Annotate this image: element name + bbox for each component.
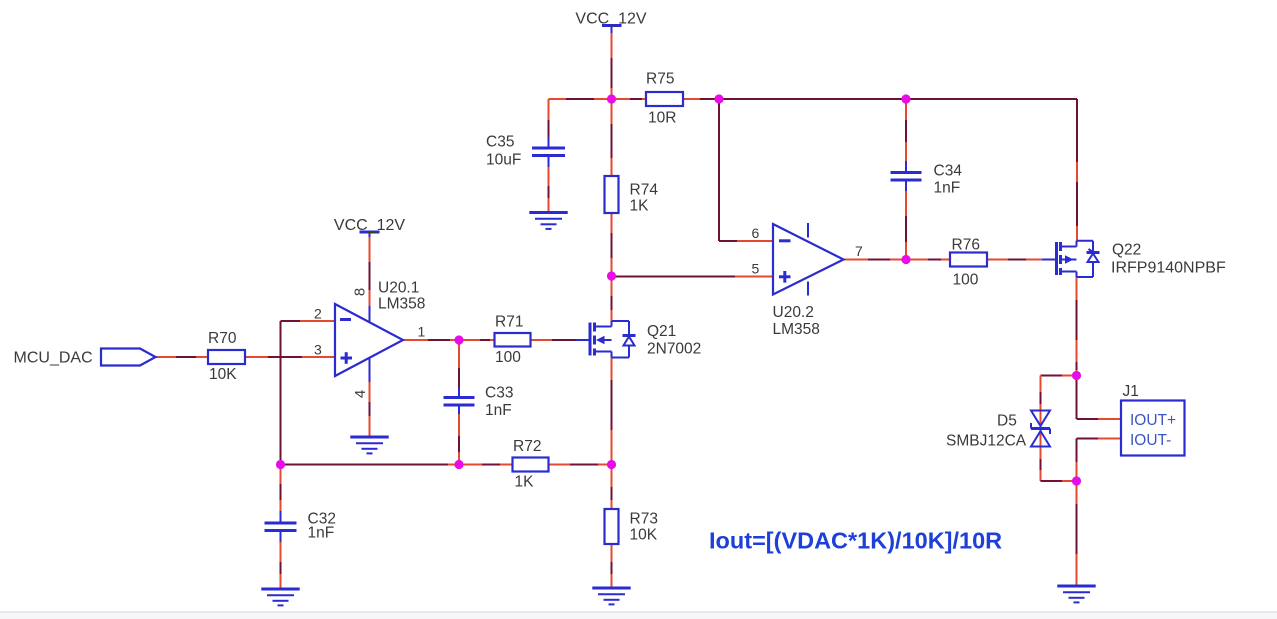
svg-text:2: 2 <box>314 306 322 322</box>
svg-text:IOUT-: IOUT- <box>1130 432 1171 449</box>
svg-text:4: 4 <box>352 390 369 398</box>
svg-text:VCC_12V: VCC_12V <box>334 217 405 234</box>
svg-text:IOUT+: IOUT+ <box>1130 412 1176 429</box>
wire C34 branch <box>905 99 907 260</box>
svg-text:R71: R71 <box>495 314 523 331</box>
wire branch up to U20.1 pin2 <box>281 321 336 465</box>
wire R74 to Q21 drain <box>611 213 613 321</box>
svg-text:R76: R76 <box>952 237 980 254</box>
wire Q22 source down to node <box>1076 277 1078 376</box>
wire VCC top down <box>611 33 613 99</box>
wire R71 to Q21 gate <box>531 339 577 341</box>
power port VCC_12V mid <box>334 217 405 237</box>
svg-text:R73: R73 <box>630 511 658 528</box>
resistor R74 <box>605 176 659 215</box>
ground under C35 <box>529 213 567 229</box>
svg-text:Iout=[(VDAC*1K)/10K]/10R: Iout=[(VDAC*1K)/10K]/10R <box>709 528 1002 554</box>
svg-text:U20.1: U20.1 <box>378 280 419 297</box>
connector MCU_DAC <box>14 349 156 367</box>
wire corner down to Q22 drain <box>1076 99 1078 241</box>
svg-text:6: 6 <box>752 225 760 241</box>
capacitor C34 <box>891 161 963 197</box>
wire R76 to Q22 gate <box>987 259 1042 261</box>
op-amp U20.1 <box>335 280 425 383</box>
svg-text:10uF: 10uF <box>486 152 521 169</box>
resistor R75 <box>646 71 683 127</box>
wire R70 to U20.1 pin3 <box>245 356 335 358</box>
svg-text:5: 5 <box>752 261 760 277</box>
wire node to R73 <box>611 465 613 510</box>
wire R72 to node <box>549 464 612 466</box>
ground right under J1 net <box>1057 586 1095 602</box>
formula text <box>709 528 1002 554</box>
svg-text:SMBJ12CA: SMBJ12CA <box>946 433 1027 450</box>
svg-text:1nF: 1nF <box>485 402 512 419</box>
svg-text:Q22: Q22 <box>1112 242 1141 259</box>
svg-text:1K: 1K <box>630 198 650 215</box>
svg-text:2N7002: 2N7002 <box>647 341 701 358</box>
svg-text:LM358: LM358 <box>378 296 425 313</box>
wire bottom bus <box>281 464 513 466</box>
wire Q21 source to bus <box>611 358 613 465</box>
resistor R72 <box>513 438 549 491</box>
wire J1 IOUT- pin to node <box>1077 439 1122 482</box>
wire MCU_DAC to R70 <box>156 356 209 358</box>
svg-text:C33: C33 <box>485 385 513 402</box>
svg-text:IRFP9140NPBF: IRFP9140NPBF <box>1111 260 1226 277</box>
bottom window edge <box>0 612 1277 619</box>
svg-text:Q21: Q21 <box>647 323 676 340</box>
wire node to D5 top <box>1041 376 1077 448</box>
node junction dots <box>276 94 1081 485</box>
svg-text:8: 8 <box>352 288 369 296</box>
wire rail C35 to node <box>549 98 612 100</box>
transistor Q22 <box>1042 241 1226 277</box>
wire VCC mid down to U20.1 pin8 <box>369 237 371 306</box>
wire node to R71 <box>459 339 495 341</box>
svg-text:J1: J1 <box>1123 383 1139 400</box>
wire node to R76 <box>906 259 950 261</box>
wire node to J1 IOUT+ pin <box>1077 376 1122 420</box>
transistor Q21 <box>576 321 701 358</box>
ground under C32 <box>261 589 299 605</box>
svg-text:R74: R74 <box>630 182 659 199</box>
wire U20.1 pin4 to ground <box>369 382 371 436</box>
ground under R73 <box>592 588 630 604</box>
svg-text:100: 100 <box>953 272 979 289</box>
resistor R73 <box>605 509 658 544</box>
svg-text:U20.2: U20.2 <box>773 304 814 321</box>
svg-text:10K: 10K <box>630 527 658 544</box>
op-amp U20.2 <box>773 223 844 338</box>
svg-text:1nF: 1nF <box>934 180 961 197</box>
capacitor C35 <box>486 134 565 169</box>
wire R73 to ground <box>611 544 613 588</box>
svg-text:3: 3 <box>314 342 322 358</box>
svg-text:C34: C34 <box>934 163 963 180</box>
svg-text:R72: R72 <box>513 438 541 455</box>
capacitor C33 <box>444 385 514 420</box>
ground under U20.1 pin4 <box>350 437 388 453</box>
wire C35 branch <box>548 99 550 212</box>
wire C33 branch vertical <box>458 340 460 465</box>
wire node down to R74 <box>611 99 613 176</box>
svg-text:10K: 10K <box>209 366 237 383</box>
wire D5 bottom to node <box>1041 447 1077 482</box>
resistor R76 <box>950 237 987 289</box>
svg-text:C35: C35 <box>486 134 514 151</box>
svg-text:1K: 1K <box>515 474 535 491</box>
power port VCC_12V top <box>575 11 646 34</box>
svg-text:D5: D5 <box>997 413 1017 430</box>
svg-text:R75: R75 <box>646 71 674 88</box>
svg-text:100: 100 <box>495 349 521 366</box>
svg-text:1: 1 <box>418 324 426 340</box>
resistor R70 <box>208 330 245 383</box>
svg-text:R70: R70 <box>208 330 237 347</box>
wire node to U20.2 pin5 <box>612 276 774 278</box>
wire node down to ground <box>1076 481 1078 585</box>
svg-text:1nF: 1nF <box>308 525 335 542</box>
svg-text:10R: 10R <box>648 110 676 127</box>
svg-text:VCC_12V: VCC_12V <box>575 11 646 28</box>
wire U20.1 pin1 output to node <box>403 339 459 341</box>
svg-text:MCU_DAC: MCU_DAC <box>14 350 93 367</box>
connector J1 <box>1121 383 1185 456</box>
wire node to R75 <box>612 98 647 100</box>
wire rail node to node <box>719 98 906 100</box>
wire rail node to Q22 corner <box>906 98 1077 100</box>
op-amp U20.2 pin numbers <box>752 225 864 277</box>
wire R75 to node <box>683 98 719 100</box>
wire node to U20.2 pin6 <box>719 99 773 241</box>
svg-text:LM358: LM358 <box>773 321 820 338</box>
capacitor C32 <box>265 511 336 543</box>
wire C32 branch <box>280 465 282 588</box>
svg-text:7: 7 <box>855 243 863 259</box>
resistor R71 <box>495 314 531 367</box>
wire U20.2 pin7 to node <box>844 259 907 261</box>
op-amp U20.1 pin numbers <box>314 288 426 398</box>
diode D5 TVS <box>946 411 1050 450</box>
